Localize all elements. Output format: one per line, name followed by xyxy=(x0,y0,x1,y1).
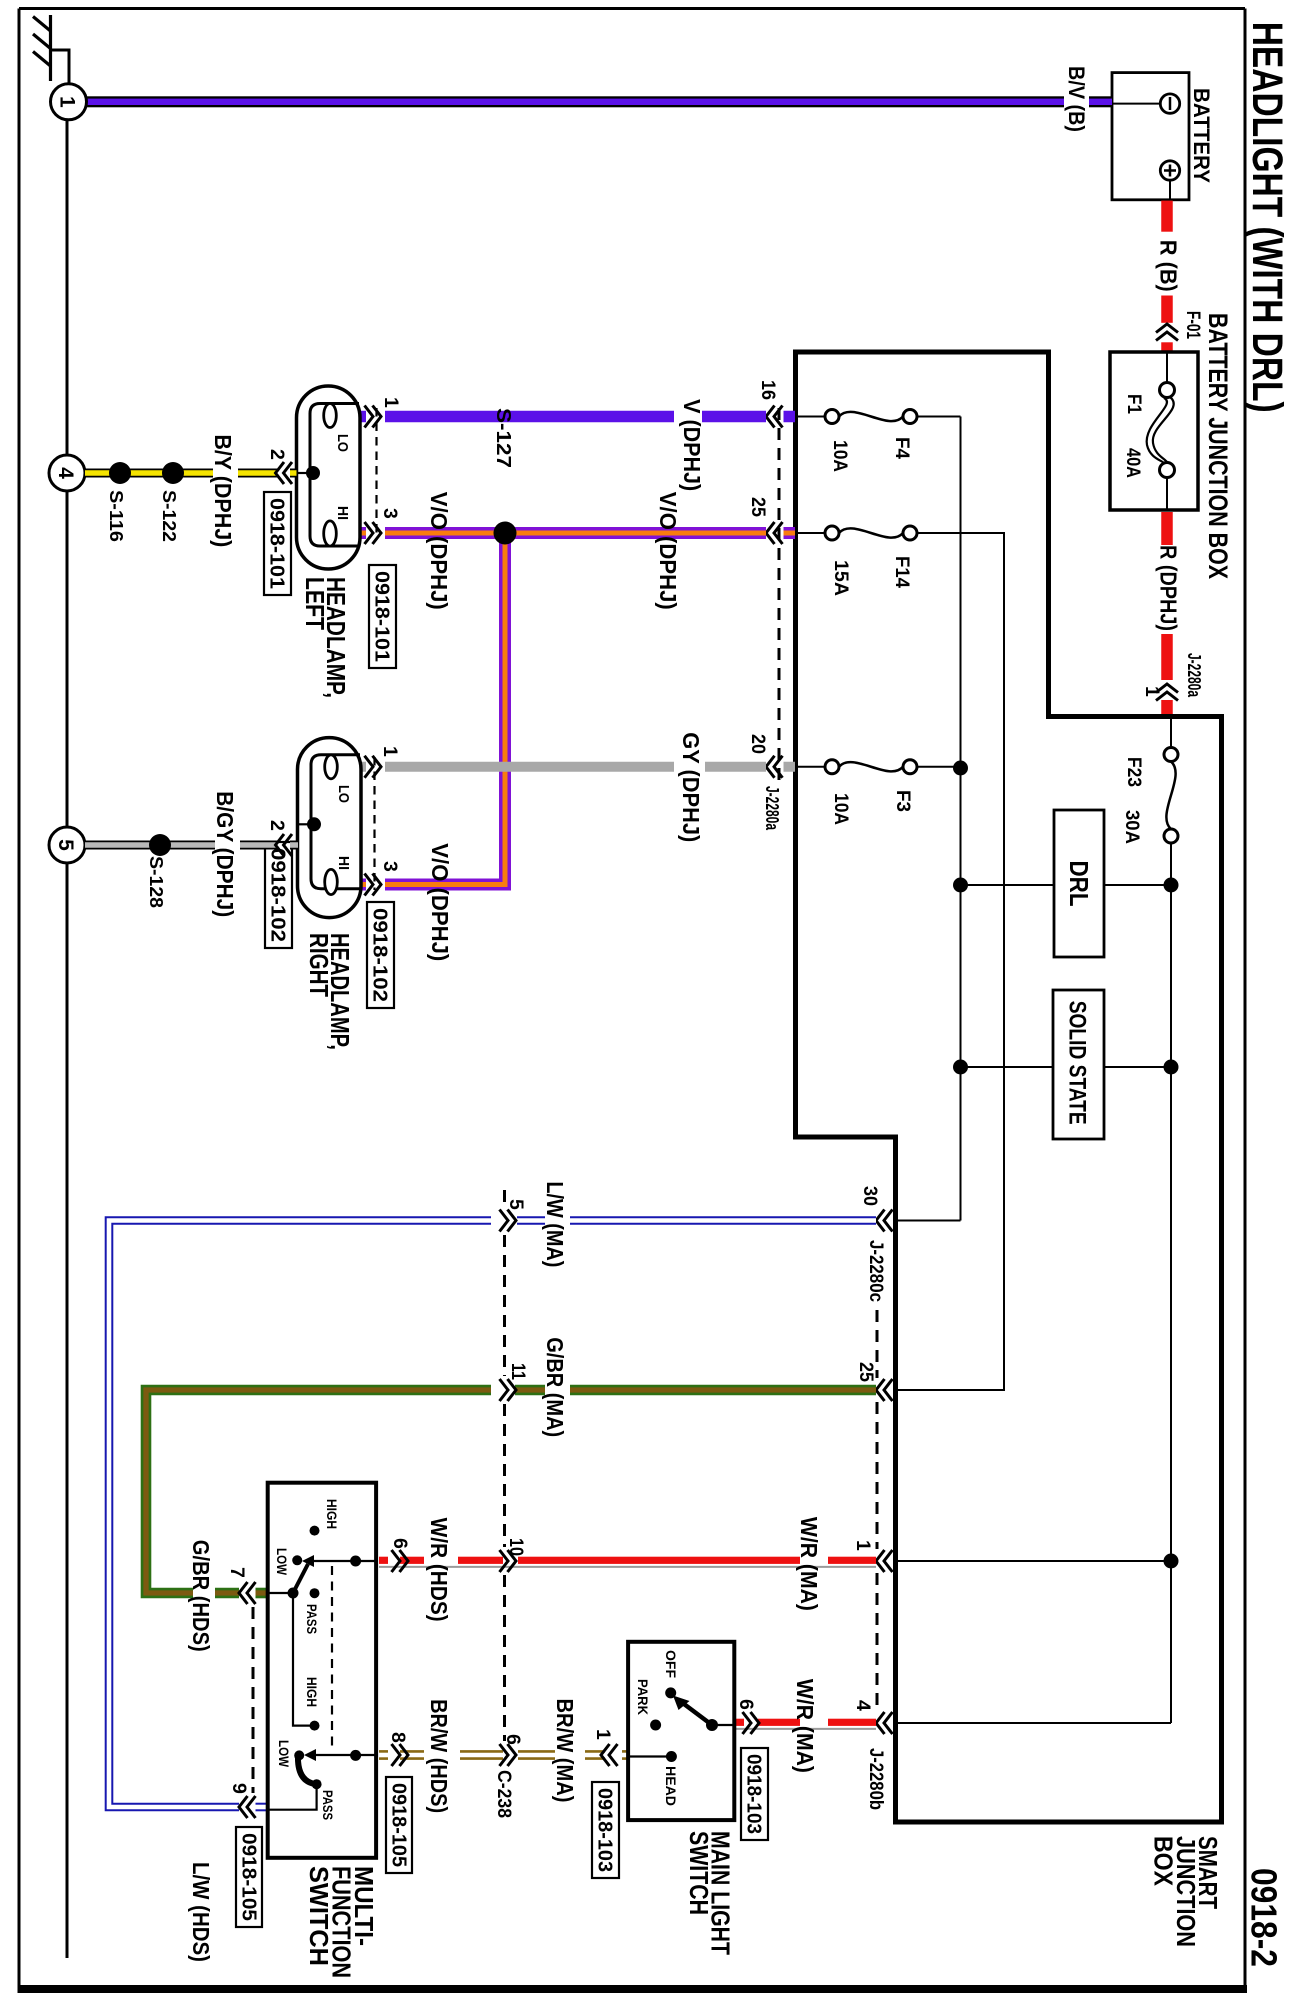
wire B/V (B) battery to ground xyxy=(1089,96,1112,107)
splice S-127 xyxy=(494,522,517,545)
headlamp left pin 3 chevron xyxy=(365,522,374,544)
MLS arm arrowhead xyxy=(673,1696,690,1711)
wire solid state to feed xyxy=(1104,1066,1169,1068)
svg-text:0918-103: 0918-103 xyxy=(743,1754,766,1834)
splice S-116 xyxy=(109,462,131,484)
main light switch box xyxy=(628,1642,734,1820)
svg-text:0918-101: 0918-101 xyxy=(266,498,289,589)
svg-text:9: 9 xyxy=(228,1783,250,1794)
MLS contact OFF xyxy=(665,1687,676,1698)
ground connector circle 4 xyxy=(49,455,85,491)
connector C-238 pin 5 chevron xyxy=(500,1210,509,1232)
svg-text:HI: HI xyxy=(335,856,352,870)
svg-text:11: 11 xyxy=(507,1363,529,1380)
MFS contact HIGH lower xyxy=(310,1721,320,1731)
MFS contact LOW lower xyxy=(294,1750,304,1760)
MFS arrow at LOW xyxy=(302,1555,314,1567)
pin 25 chevron J-2280b xyxy=(884,1379,893,1401)
headlamp right pin 2 dot xyxy=(307,817,321,831)
MFS contact HIGH xyxy=(310,1526,320,1536)
fuse F23 30A xyxy=(1164,748,1178,762)
svg-text:0918-105: 0918-105 xyxy=(388,1783,411,1867)
MLS arm xyxy=(680,1701,712,1725)
svg-text:W/R (HDS): W/R (HDS) xyxy=(426,1518,452,1622)
svg-text:J-2280b: J-2280b xyxy=(865,1748,887,1810)
svg-text:20: 20 xyxy=(747,734,769,754)
svg-text:1: 1 xyxy=(380,397,402,408)
reference box 0918-102 left xyxy=(265,842,292,948)
MFS dimmer arm xyxy=(293,1564,308,1593)
wire BR/W (MA) xyxy=(622,1750,630,1753)
pin 30 chevron xyxy=(884,1210,893,1232)
pin 4 chevron J-2280b xyxy=(884,1712,893,1734)
svg-text:3: 3 xyxy=(379,508,401,519)
headlamp right bulb outline xyxy=(298,738,362,918)
svg-text:0918-105: 0918-105 xyxy=(238,1833,261,1921)
svg-text:HEADLIGHT (WITH DRL): HEADLIGHT (WITH DRL) xyxy=(1243,22,1291,413)
connector J-2280a pin 1 chevron xyxy=(1156,692,1178,701)
svg-text:10: 10 xyxy=(505,1538,527,1556)
wire W/R (MA) to main light switch xyxy=(828,1719,876,1726)
svg-text:3: 3 xyxy=(379,861,401,872)
MFS pin 6 chevron xyxy=(392,1550,401,1572)
connector 0918-105 pin 7 chevron xyxy=(247,1582,256,1604)
connector 0918-105 pin 9 chevron xyxy=(247,1796,256,1818)
svg-text:15A: 15A xyxy=(830,560,852,596)
headlamp left LO filament xyxy=(324,404,337,428)
svg-text:5: 5 xyxy=(54,839,77,851)
MFS pivot to G/BR xyxy=(269,1592,293,1594)
svg-text:F4: F4 xyxy=(891,437,913,459)
svg-text:BOX: BOX xyxy=(1149,1836,1179,1887)
svg-text:30: 30 xyxy=(859,1186,881,1206)
svg-text:J-2280a: J-2280a xyxy=(762,786,783,830)
headlamp right HI filament xyxy=(325,869,338,894)
svg-text:J-2280c: J-2280c xyxy=(865,1240,887,1302)
svg-text:1: 1 xyxy=(56,96,79,108)
MFS contact PASS lower xyxy=(312,1779,322,1789)
wire R (DPHJ) xyxy=(1161,512,1173,545)
svg-text:6: 6 xyxy=(735,1699,757,1710)
headlamp right LO filament xyxy=(325,755,338,779)
svg-text:S-127: S-127 xyxy=(492,408,514,468)
junction dot W/R feed xyxy=(1164,1554,1179,1569)
wire V (DPHJ) xyxy=(784,411,796,423)
reference box 0918-101 left xyxy=(264,492,291,595)
svg-text:W/R (MA): W/R (MA) xyxy=(792,1679,818,1773)
wire V/O (DPHJ) cross leg xyxy=(385,533,505,885)
splice S-128 xyxy=(149,834,171,856)
svg-text:4: 4 xyxy=(852,1700,874,1711)
junction dot solid-state feed xyxy=(1164,1060,1179,1075)
MFS arrow at LOW lower xyxy=(304,1749,316,1761)
svg-text:1: 1 xyxy=(852,1540,874,1551)
svg-text:R (DPHJ): R (DPHJ) xyxy=(1156,545,1182,631)
pin 25 chevron xyxy=(774,522,783,544)
svg-text:HI: HI xyxy=(334,506,351,520)
svg-text:F14: F14 xyxy=(891,556,913,588)
svg-text:10A: 10A xyxy=(830,793,852,825)
wire G/BR stub at MFS pin 7 xyxy=(256,1588,268,1599)
ground connector circle 5 xyxy=(49,827,85,863)
svg-text:V (DPHJ): V (DPHJ) xyxy=(679,399,705,491)
battery junction box xyxy=(1110,352,1198,510)
wire GY (DPHJ) xyxy=(784,762,796,772)
wire F14 to G/BR bus xyxy=(896,533,1005,1390)
wire DRL to bus xyxy=(961,884,1055,886)
smart junction box outline xyxy=(796,352,1222,1822)
connector F-01 chevron xyxy=(1156,332,1178,341)
reference box 0918-105 right xyxy=(236,1827,262,1927)
svg-text:1: 1 xyxy=(592,1729,614,1740)
wire F3 to bus xyxy=(917,766,961,768)
fuse F4 10A xyxy=(796,416,825,418)
headlamp left pin connector dashed line xyxy=(375,408,377,540)
pin 20 chevron xyxy=(774,756,783,778)
MFS mechanical link dashed xyxy=(331,1566,333,1748)
svg-text:R (B): R (B) xyxy=(1156,240,1182,292)
wire SJB feed line xyxy=(1170,717,1172,748)
wire V/O (DPHJ) left leg xyxy=(784,527,796,539)
wire bus to pin 30 xyxy=(896,1220,961,1222)
connector J-2280c dashed line xyxy=(876,1310,879,1378)
svg-text:B/V (B): B/V (B) xyxy=(1064,66,1089,132)
ground bus wire xyxy=(66,120,69,1958)
fuse F3 10A xyxy=(796,766,825,768)
SOLID STATE module box xyxy=(1053,990,1104,1139)
svg-text:HIGH: HIGH xyxy=(324,1499,339,1529)
MLS contact HEAD xyxy=(666,1751,677,1762)
MFS link wire to lower HIGH xyxy=(293,1593,311,1726)
svg-text:F3: F3 xyxy=(892,790,914,812)
junction dot DRL-bus xyxy=(953,878,968,893)
svg-text:GY (DPHJ): GY (DPHJ) xyxy=(678,732,704,842)
pin 16 chevron xyxy=(774,406,783,428)
fuse F14 15A xyxy=(796,532,825,534)
wire solid state to bus xyxy=(961,1066,1054,1068)
svg-text:C-238: C-238 xyxy=(493,1770,515,1818)
svg-text:8: 8 xyxy=(387,1732,409,1743)
MFS junction dot BR/W xyxy=(350,1750,361,1761)
svg-text:1: 1 xyxy=(1141,686,1163,697)
svg-text:G/BR (HDS): G/BR (HDS) xyxy=(188,1540,214,1652)
junction dot DRL feed xyxy=(1164,878,1179,893)
svg-text:BR/W (HDS): BR/W (HDS) xyxy=(426,1699,452,1813)
MFS dimmer wire W/R inside xyxy=(309,1560,376,1562)
svg-text:25: 25 xyxy=(747,497,769,517)
wire F23 to DRL junction xyxy=(1170,843,1172,1723)
svg-text:6: 6 xyxy=(389,1538,411,1549)
splice S-122 xyxy=(162,462,184,484)
svg-text:V/O (DPHJ): V/O (DPHJ) xyxy=(655,492,681,610)
svg-text:4: 4 xyxy=(54,467,77,479)
svg-text:B/Y (DPHJ): B/Y (DPHJ) xyxy=(210,434,236,547)
battery BATTERY xyxy=(1112,73,1189,200)
svg-text:SWITCH: SWITCH xyxy=(684,1831,714,1915)
svg-text:SOLID STATE: SOLID STATE xyxy=(1064,1001,1091,1125)
svg-text:B/GY (DPHJ): B/GY (DPHJ) xyxy=(212,791,238,917)
MLS pivot dot xyxy=(706,1719,718,1731)
svg-text:5: 5 xyxy=(505,1199,527,1210)
headlamp left pin 1 chevron xyxy=(365,406,374,428)
svg-text:1: 1 xyxy=(379,746,401,757)
MFS pivot dot xyxy=(288,1588,299,1599)
svg-text:L/W (HDS): L/W (HDS) xyxy=(188,1862,214,1962)
svg-text:DRL: DRL xyxy=(1064,861,1094,907)
wire W/R white tracer line xyxy=(379,1566,876,1568)
svg-text:BATTERY: BATTERY xyxy=(1189,88,1214,183)
headlamp right pin 1 chevron xyxy=(365,756,374,778)
DRL module box xyxy=(1054,810,1104,957)
reference box 0918-101 right xyxy=(369,565,396,668)
MFS BR/W wire inside xyxy=(311,1754,376,1756)
bus wire from F4 xyxy=(960,417,962,1221)
connector J-2280b dashed line xyxy=(876,1402,879,1549)
headlamp left bulb outline xyxy=(297,386,361,569)
reference box 0918-103 lower xyxy=(592,1782,619,1878)
wire G/BR (MA) xyxy=(146,1390,876,1593)
svg-text:30A: 30A xyxy=(1121,810,1143,844)
headlamp left HI filament xyxy=(324,521,337,546)
battery positive terminal xyxy=(1160,161,1179,180)
svg-text:6: 6 xyxy=(502,1734,524,1745)
wire DRL to feed xyxy=(1104,884,1169,886)
svg-text:LO: LO xyxy=(335,785,352,803)
svg-text:HEAD: HEAD xyxy=(663,1766,679,1806)
connector 0918-105 dashed line xyxy=(252,1607,255,1793)
MFS wire PASS to L/W xyxy=(269,1784,317,1810)
wire L/W stub at MFS pin 9 xyxy=(256,1803,268,1805)
headlamp right pin 2 chevron xyxy=(284,834,293,856)
multi-function switch box xyxy=(268,1483,376,1858)
svg-text:0918-102: 0918-102 xyxy=(369,908,392,1002)
pin 1 chevron J-2280b xyxy=(884,1550,893,1572)
MFS contact PASS upper xyxy=(310,1588,320,1598)
MLS HEAD wire to BR/W xyxy=(630,1755,671,1757)
MFS junction dot W/R xyxy=(350,1556,361,1567)
svg-text:25: 25 xyxy=(855,1362,877,1382)
svg-text:BR/W (MA): BR/W (MA) xyxy=(552,1699,578,1803)
svg-text:V/O (DPHJ): V/O (DPHJ) xyxy=(426,492,452,610)
svg-text:LOW: LOW xyxy=(276,1740,291,1767)
MFS pin 8 chevron xyxy=(392,1744,401,1766)
svg-text:0918-101: 0918-101 xyxy=(371,571,394,662)
svg-text:J-2280a: J-2280a xyxy=(1184,653,1205,697)
svg-text:F23: F23 xyxy=(1123,757,1145,787)
connector C-238 dashed line xyxy=(503,1190,506,1206)
wire L/W (MA) xyxy=(109,1221,876,1808)
junction dot F3-bus xyxy=(953,761,968,776)
svg-text:16: 16 xyxy=(757,380,779,400)
svg-text:LO: LO xyxy=(334,434,351,452)
wire W/R pin1 drop xyxy=(896,1560,1170,1562)
reference box 0918-105 upper xyxy=(386,1777,412,1873)
connector C-238 pin 6 chevron xyxy=(500,1744,509,1766)
svg-text:40A: 40A xyxy=(1122,448,1144,478)
headlamp left pin 2 chevron xyxy=(284,462,293,484)
MLS pin 1 chevron xyxy=(609,1744,618,1766)
svg-text:7: 7 xyxy=(226,1567,248,1578)
svg-text:10A: 10A xyxy=(829,440,851,472)
wire F4 to bus xyxy=(917,416,961,418)
svg-text:PASS: PASS xyxy=(320,1790,335,1820)
headlamp left pin 2 dot xyxy=(306,466,320,480)
wire B/Y (DPHJ) xyxy=(290,469,297,478)
wire B/GY (DPHJ) xyxy=(290,841,298,850)
svg-text:LEFT: LEFT xyxy=(300,577,330,630)
svg-text:S-122: S-122 xyxy=(159,490,179,542)
svg-text:S-116: S-116 xyxy=(106,490,126,542)
svg-text:BATTERY JUNCTION BOX: BATTERY JUNCTION BOX xyxy=(1203,313,1233,579)
MFS pass arm curved xyxy=(298,1755,315,1784)
fuse F1 40A fusible link xyxy=(1166,352,1168,383)
svg-text:S-128: S-128 xyxy=(146,856,166,908)
wire W/R second white tracer xyxy=(736,1728,876,1730)
reference box 0918-103 upper xyxy=(741,1748,768,1840)
svg-text:L/W (MA): L/W (MA) xyxy=(542,1181,568,1267)
svg-text:F-01: F-01 xyxy=(1182,311,1203,339)
svg-text:0918-2: 0918-2 xyxy=(1244,1868,1285,1967)
headlamp right pin connector dashed line xyxy=(373,757,375,890)
svg-text:LOW: LOW xyxy=(274,1548,289,1575)
connector C-238 pin 11 chevron xyxy=(500,1379,509,1401)
svg-text:2: 2 xyxy=(266,449,288,460)
connector J-2280a dashed line xyxy=(778,408,781,783)
svg-text:G/BR (MA): G/BR (MA) xyxy=(542,1337,568,1437)
svg-text:OFF: OFF xyxy=(663,1650,679,1678)
svg-text:0918-103: 0918-103 xyxy=(594,1788,617,1872)
svg-text:RIGHT: RIGHT xyxy=(304,933,334,997)
MFS contact LOW xyxy=(292,1555,302,1565)
wire W/R pin4 drop xyxy=(896,1722,1172,1724)
wire R (B) xyxy=(1161,201,1173,232)
svg-text:SWITCH: SWITCH xyxy=(304,1866,334,1966)
connector C-238 pin 10 chevron xyxy=(500,1550,509,1572)
junction dot solid-state-bus xyxy=(953,1060,968,1075)
svg-text:0918-102: 0918-102 xyxy=(267,848,290,942)
ground connector circle 1 xyxy=(51,84,87,120)
headlamp right pin 3 chevron xyxy=(365,874,374,896)
svg-text:W/R (MA): W/R (MA) xyxy=(796,1517,822,1611)
battery negative terminal xyxy=(1160,94,1179,113)
wire W/R (MA) red segments xyxy=(828,1557,876,1564)
ground symbol xyxy=(49,15,52,81)
svg-text:V/O (DPHJ): V/O (DPHJ) xyxy=(427,843,453,961)
reference box 0918-102 right xyxy=(367,902,394,1008)
MLS pin 6 chevron xyxy=(743,1712,752,1734)
MLS pivot wire xyxy=(712,1724,734,1726)
svg-text:2: 2 xyxy=(266,820,288,831)
svg-text:HIGH: HIGH xyxy=(304,1677,319,1707)
MLS contact PARK xyxy=(650,1720,661,1731)
svg-text:F1: F1 xyxy=(1123,394,1145,414)
svg-text:PARK: PARK xyxy=(635,1679,651,1715)
svg-text:PASS: PASS xyxy=(304,1604,319,1634)
